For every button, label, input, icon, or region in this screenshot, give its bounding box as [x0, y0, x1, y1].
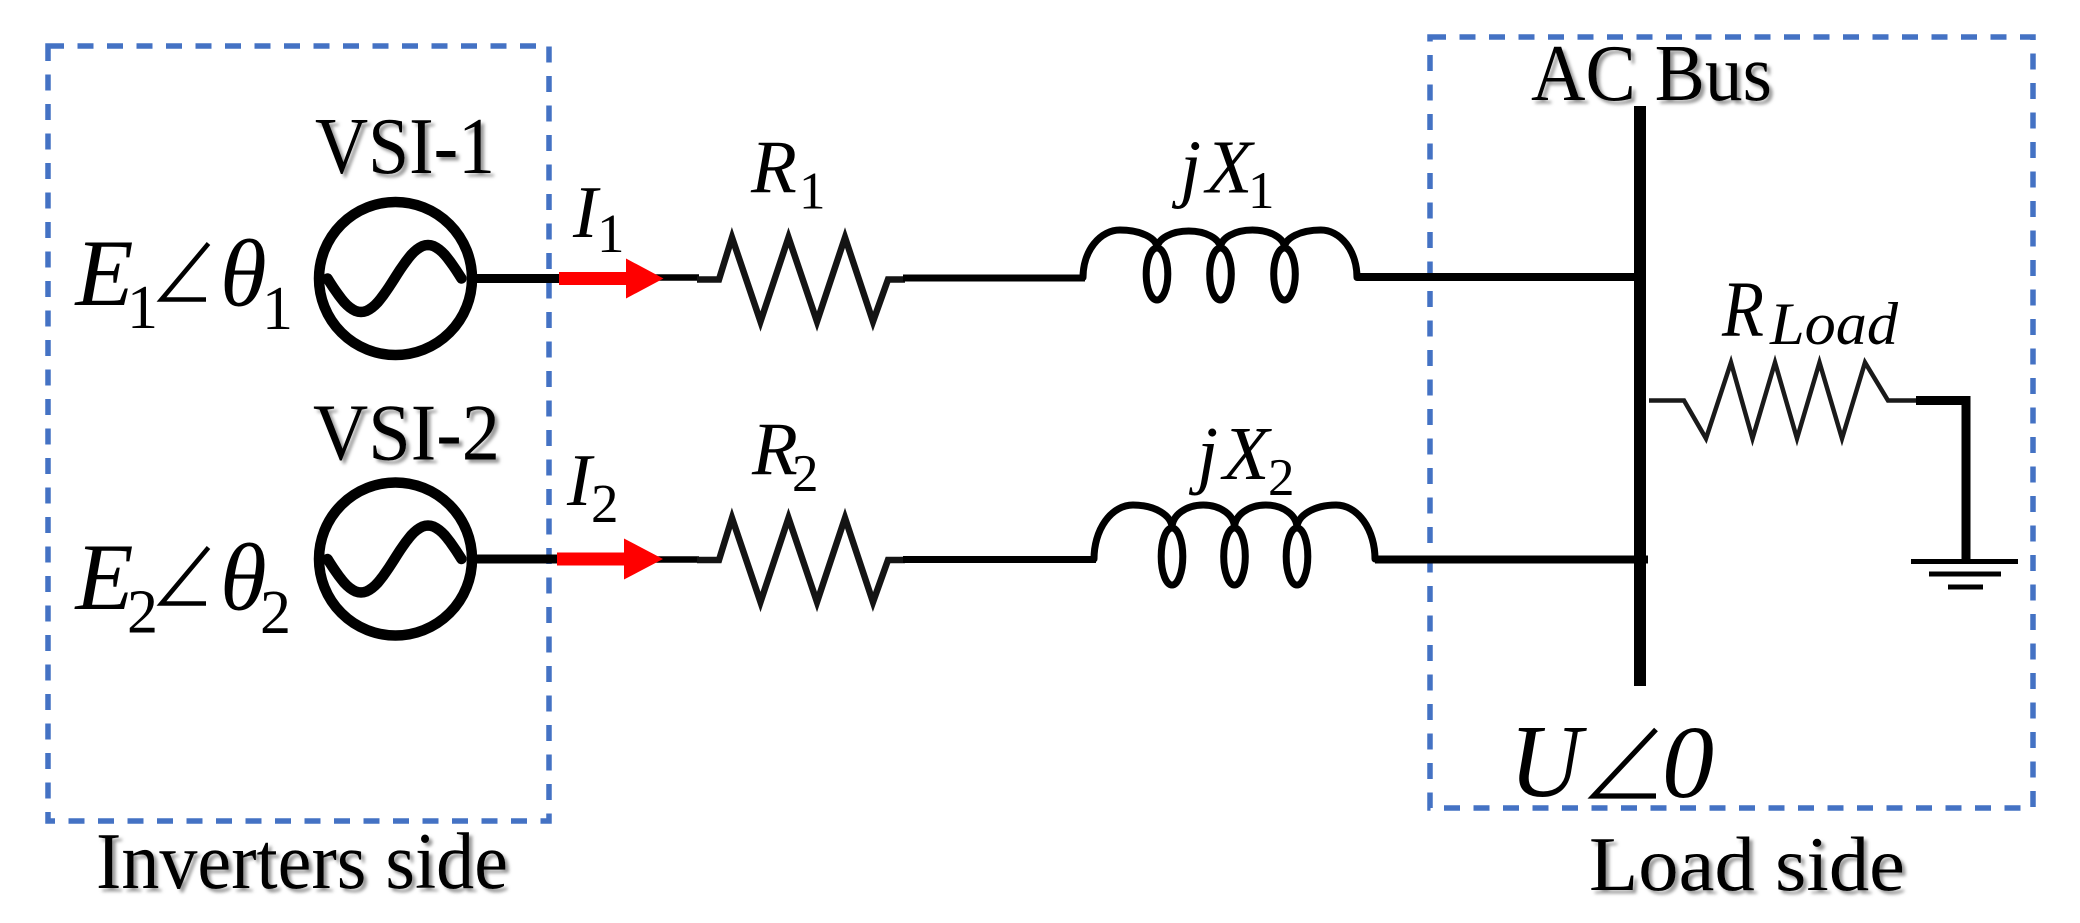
- svg-text:Load: Load: [1769, 291, 1899, 357]
- current arrow I2: [557, 539, 663, 580]
- VSI-1 sine: [328, 245, 462, 312]
- wire R1 to jX1: [903, 275, 1085, 282]
- svg-text:2: 2: [260, 579, 291, 647]
- svg-text:U: U: [1509, 704, 1587, 819]
- wire arrow1 to R1: [650, 274, 699, 281]
- svg-text:AC Bus: AC Bus: [1531, 30, 1772, 118]
- voltage source VSI-2 circle: [319, 483, 472, 636]
- svg-text:2: 2: [792, 445, 819, 503]
- wire arrow2 to R2: [650, 556, 699, 563]
- wire jX2 to bus: [1375, 556, 1648, 564]
- inductor jX2: [1094, 505, 1375, 585]
- resistor R_Load: [1649, 363, 1918, 439]
- svg-text:VSI-1: VSI-1: [315, 101, 495, 191]
- svg-text:E: E: [74, 220, 134, 326]
- svg-text:2: 2: [1268, 449, 1295, 507]
- voltage source VSI-1 circle: [319, 202, 472, 355]
- inductor jX1: [1083, 230, 1357, 300]
- svg-text:R: R: [1721, 267, 1764, 354]
- svg-text:2: 2: [127, 579, 158, 647]
- svg-text:2: 2: [591, 473, 619, 534]
- svg-text:Inverters side: Inverters side: [96, 816, 508, 906]
- svg-text:VSI-2: VSI-2: [313, 388, 500, 478]
- wire jX1 to bus: [1357, 273, 1645, 281]
- svg-text:1: 1: [1248, 162, 1275, 220]
- wire VSI-1 to arrow: [470, 274, 562, 283]
- label E1 angle theta1: [74, 220, 294, 343]
- wire VSI-2 to arrow: [470, 555, 562, 564]
- svg-text:1: 1: [262, 275, 293, 343]
- svg-text:0: 0: [1662, 705, 1714, 820]
- svg-text:X: X: [1220, 412, 1272, 496]
- label U angle 0: [1509, 704, 1587, 819]
- wire R2 to jX2: [903, 556, 1096, 563]
- load side dashed box: [1430, 37, 2033, 808]
- resistor R2: [697, 518, 905, 602]
- svg-text:1: 1: [127, 274, 158, 342]
- svg-text:1: 1: [799, 163, 826, 221]
- svg-text:θ: θ: [220, 221, 267, 327]
- inverters side dashed box: [48, 46, 549, 821]
- svg-text:1: 1: [597, 203, 625, 264]
- svg-text:R: R: [751, 408, 798, 491]
- AC bus bar: [1634, 106, 1646, 686]
- wire R_Load to ground corner: [1916, 401, 1966, 560]
- VSI-2 sine: [328, 526, 462, 593]
- svg-text:E: E: [74, 524, 134, 630]
- ground: [1911, 562, 2018, 588]
- resistor R1: [697, 238, 905, 322]
- label E2 angle theta2: [74, 524, 292, 647]
- svg-text:R: R: [750, 126, 797, 209]
- current arrow I1: [559, 259, 664, 299]
- svg-text:Load side: Load side: [1589, 821, 1905, 907]
